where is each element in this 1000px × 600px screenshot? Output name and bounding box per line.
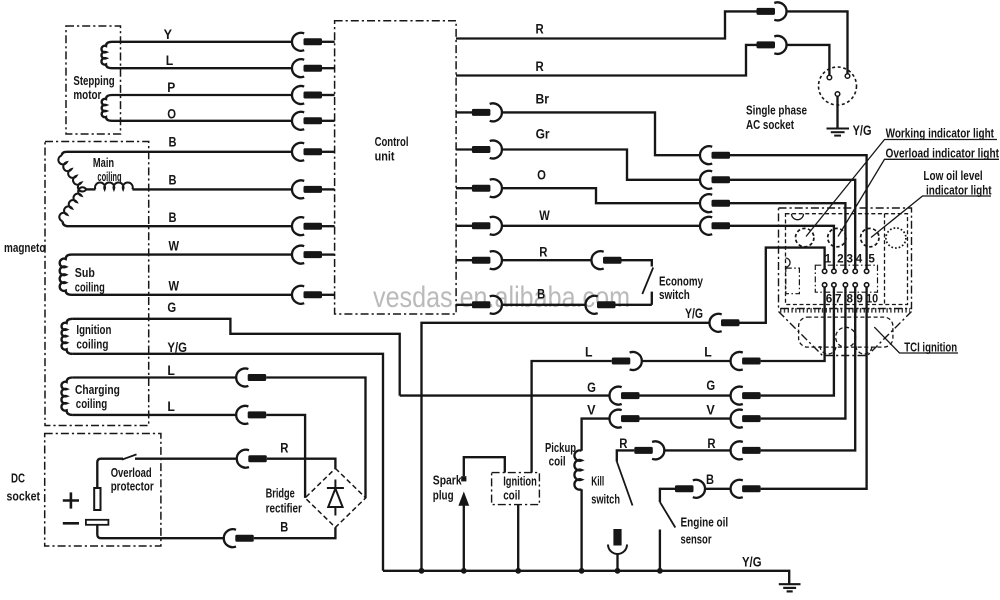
- svg-text:10: 10: [866, 292, 878, 306]
- svg-text:Kill: Kill: [591, 475, 604, 489]
- junction on ground rail x=659.9: [657, 568, 663, 574]
- TCI inner rounded rect: [799, 317, 893, 347]
- connector L left: [612, 352, 642, 370]
- connector R AC 1: [757, 2, 787, 20]
- AC socket ground stem: [836, 96, 838, 128]
- svg-text:Spark: Spark: [433, 474, 462, 488]
- spark plug lower lead: [463, 506, 465, 571]
- junction on ground rail x=617.5: [615, 568, 621, 574]
- svg-text:Bridge: Bridge: [266, 487, 295, 501]
- svg-text:O: O: [537, 168, 546, 183]
- svg-text:L: L: [585, 345, 593, 360]
- svg-text:Ignition: Ignition: [503, 475, 537, 489]
- svg-text:R: R: [707, 436, 715, 451]
- svg-text:magneto: magneto: [4, 241, 46, 255]
- svg-text:coil: coil: [549, 455, 566, 469]
- stub Gr out of control unit: [456, 148, 473, 150]
- wire V row to pickup coil: [582, 419, 610, 448]
- wire R DC to bridge top: [267, 459, 336, 469]
- svg-text:6: 6: [826, 292, 833, 306]
- svg-text:rectifier: rectifier: [266, 502, 302, 516]
- wire L charging bottom to bridge left vertex: [72, 415, 305, 498]
- indicator panel outer box: [779, 208, 912, 309]
- wire L charging top to bridge right vertex: [72, 378, 365, 498]
- svg-text:protector: protector: [111, 480, 154, 494]
- svg-text:Y/G: Y/G: [853, 123, 872, 138]
- pickup coil: [574, 448, 581, 571]
- leader working indicator: [806, 140, 997, 237]
- main coiling horizontal coil: [95, 183, 133, 190]
- ignition coiling coil: [62, 319, 73, 354]
- TCI inner circle: [836, 327, 856, 347]
- junction on ground rail x=581.6: [579, 568, 585, 574]
- wire R economy: [502, 259, 592, 261]
- TCI inner right arc: [856, 346, 872, 354]
- svg-text:indicator light: indicator light: [926, 183, 992, 197]
- AC socket ground pin: [835, 92, 840, 97]
- wire R to AC socket pin left: [456, 45, 757, 76]
- connector Gr mid: [700, 171, 730, 189]
- svg-text:Y/G: Y/G: [685, 306, 703, 321]
- wire B2 from main coiling tap: [132, 188, 292, 190]
- hatch strip under panel: [780, 308, 910, 313]
- engine oil sensor stem: [659, 530, 661, 571]
- svg-text:L: L: [704, 345, 712, 360]
- ground symbol right: [779, 584, 801, 591]
- svg-text:Charging: Charging: [75, 383, 120, 397]
- kill switch blade: [617, 462, 633, 506]
- kill switch cap cup: [608, 545, 627, 555]
- economy switch bottom contact: [651, 292, 653, 305]
- svg-text:B: B: [169, 172, 177, 187]
- wire B DC to bridge bottom: [254, 527, 336, 538]
- wire R to AC socket pin right: [456, 11, 757, 38]
- connector L right: [731, 352, 761, 370]
- stub O row into control unit: [322, 120, 335, 122]
- wire B1 from main coiling: [62, 152, 292, 156]
- wire B3 from main coiling: [63, 221, 292, 226]
- svg-text:4: 4: [856, 252, 863, 266]
- wire R AC 2 continuation: [787, 45, 830, 75]
- terminal pins 1-10: [822, 269, 868, 287]
- svg-text:Gr: Gr: [536, 127, 551, 142]
- svg-text:G: G: [587, 380, 596, 395]
- svg-text:B: B: [280, 520, 288, 535]
- bridge rectifier diamond: [305, 468, 366, 527]
- svg-text:G: G: [706, 378, 715, 393]
- stub W out of control unit: [456, 225, 473, 227]
- svg-text:3: 3: [846, 252, 853, 266]
- indicator panel left notch: [786, 258, 791, 267]
- sub coiling with W wires: [60, 255, 292, 295]
- connector Y/G: [709, 314, 739, 332]
- engine oil sensor blade: [660, 502, 675, 528]
- control unit box: [335, 21, 457, 314]
- svg-text:coiling: coiling: [76, 338, 108, 352]
- svg-text:TCI ignition: TCI ignition: [904, 341, 957, 355]
- svg-text:Economy: Economy: [659, 275, 703, 289]
- connector B right: [731, 480, 761, 498]
- wire from pin 7 to G row: [761, 287, 834, 396]
- AC socket pin left: [827, 75, 832, 80]
- connector G left: [609, 387, 639, 405]
- wire R AC 1 continuation: [787, 11, 848, 73]
- wire G row middle: [640, 394, 731, 396]
- connector W mid: [700, 217, 730, 235]
- stub Br out of control unit: [456, 111, 473, 113]
- connector R economy row: [472, 251, 502, 269]
- svg-text:coiling: coiling: [97, 170, 121, 184]
- kill switch stem to ground rail: [616, 554, 618, 571]
- working indicator light circle: [796, 228, 814, 246]
- svg-text:W: W: [539, 208, 550, 223]
- stepping motor box: [66, 26, 121, 134]
- svg-text:coiling: coiling: [75, 281, 105, 295]
- connector B economy row: [472, 296, 502, 314]
- svg-text:G: G: [167, 300, 176, 315]
- wire B row to oil sensor: [660, 489, 675, 502]
- wire Gr step down: [502, 150, 700, 180]
- ground rail: [383, 571, 789, 584]
- stub R economy out of control unit: [456, 259, 473, 261]
- svg-text:unit: unit: [375, 150, 396, 164]
- svg-text:B: B: [537, 286, 545, 301]
- svg-text:Sub: Sub: [75, 266, 95, 280]
- svg-text:Overload: Overload: [111, 466, 152, 480]
- overload protector switch blade: [122, 454, 137, 459]
- svg-text:motor: motor: [73, 88, 101, 102]
- svg-text:Br: Br: [536, 92, 550, 107]
- stepping motor coil 1 with Y and L wires: [101, 42, 292, 68]
- connector V right: [731, 410, 761, 428]
- wire B economy to switch: [616, 304, 652, 306]
- svg-text:Ignition: Ignition: [76, 323, 111, 337]
- leader TCI ignition: [874, 327, 958, 353]
- wire Br to pin 5: [730, 155, 867, 269]
- junction on ground rail x=518.2: [515, 568, 521, 574]
- wire R economy to switch: [622, 260, 652, 266]
- stub W2 row into control unit: [322, 294, 335, 296]
- svg-text:Low oil level: Low oil level: [923, 169, 982, 183]
- wire W straight: [502, 225, 700, 227]
- svg-text:R: R: [280, 441, 288, 456]
- spark plug arrowhead: [458, 492, 469, 506]
- connector R economy second: [591, 251, 621, 269]
- svg-text:W: W: [169, 278, 180, 293]
- connector R AC 2: [757, 36, 787, 54]
- svg-text:L: L: [166, 53, 174, 68]
- svg-text:V: V: [706, 402, 714, 417]
- svg-text:Pickup: Pickup: [545, 441, 576, 455]
- svg-text:Overload indicator light: Overload indicator light: [886, 146, 1000, 160]
- ignition coil bottom lead: [517, 505, 519, 571]
- stub B3 row into control unit: [322, 225, 335, 227]
- connector O mid: [700, 194, 730, 212]
- connector W2 row: [292, 286, 322, 304]
- wire R row to kill switch: [617, 450, 635, 461]
- DC socket box: [45, 434, 161, 547]
- wire from pin 10 to B row: [761, 287, 867, 489]
- svg-text:B: B: [169, 135, 177, 150]
- svg-text:R: R: [539, 245, 547, 260]
- connector B3 row: [292, 217, 322, 235]
- svg-text:2: 2: [837, 252, 844, 266]
- wire from pin 6 to L row: [761, 287, 825, 361]
- wire O to pin 3: [730, 203, 845, 269]
- plus symbol: [63, 492, 79, 508]
- wire B economy: [502, 304, 586, 306]
- economy switch blade: [642, 268, 653, 295]
- connector L charging bottom: [236, 406, 266, 424]
- magneto box: [45, 142, 149, 426]
- stub P row into control unit: [322, 94, 335, 96]
- connector B economy second: [585, 296, 615, 314]
- bridge diode: [327, 480, 344, 516]
- svg-text:sensor: sensor: [681, 533, 712, 547]
- indicator panel small rect: [786, 268, 800, 294]
- svg-text:Control: Control: [375, 135, 409, 149]
- svg-text:O: O: [167, 107, 176, 122]
- wire Y/G continuation to pin 1: [740, 248, 825, 323]
- svg-text:coiling: coiling: [76, 397, 107, 411]
- connector V left: [609, 410, 639, 428]
- connector R right: [731, 441, 761, 459]
- connector O row: [472, 179, 502, 197]
- stepping motor coil 2 with P and O wires: [102, 95, 292, 121]
- wire from pin 8 to V row: [761, 287, 846, 419]
- svg-text:switch: switch: [591, 493, 620, 507]
- svg-text:5: 5: [868, 252, 875, 266]
- svg-text:B: B: [706, 472, 714, 487]
- wire from pin 9 to R row: [761, 287, 856, 450]
- spark plug electrode square: [461, 476, 466, 481]
- kill switch cap bar: [613, 529, 621, 546]
- svg-text:coil: coil: [503, 488, 520, 502]
- connector Y row: [292, 33, 322, 51]
- svg-text:Engine oil: Engine oil: [681, 516, 729, 530]
- wire R row middle: [664, 449, 730, 451]
- connector Gr row: [472, 141, 502, 159]
- indicator panel inner divider: [884, 214, 886, 305]
- overload protector fuse: [94, 488, 100, 510]
- connector W row: [472, 217, 502, 235]
- connector O row: [292, 112, 322, 130]
- svg-text:W: W: [169, 238, 180, 253]
- wire Y/G from ignition coiling to ground rail: [72, 354, 383, 571]
- ignition coil box: [492, 473, 540, 505]
- stub B2 row into control unit: [322, 188, 335, 190]
- connector W1 row: [292, 246, 322, 264]
- junction on ground rail x=421.5: [419, 568, 425, 574]
- connector Br row: [472, 103, 502, 121]
- charging coiling coil: [61, 378, 72, 415]
- svg-text:1: 1: [825, 252, 832, 266]
- svg-text:P: P: [167, 80, 175, 95]
- svg-text:DC: DC: [11, 472, 25, 486]
- overload indicator light circle: [828, 228, 846, 246]
- connector L charging top: [236, 369, 266, 387]
- wire B DC from minus bar: [97, 525, 224, 538]
- TCI ignition trapezoid: [779, 312, 912, 356]
- main coiling lower loops: [59, 187, 86, 221]
- svg-text:7: 7: [835, 292, 842, 306]
- wire Br step down: [502, 112, 700, 155]
- svg-text:Main: Main: [93, 156, 114, 170]
- AC socket pin right: [845, 74, 850, 79]
- minus symbol: [63, 522, 79, 525]
- wire V row middle: [640, 417, 731, 419]
- svg-text:AC socket: AC socket: [746, 118, 795, 132]
- svg-text:R: R: [619, 436, 627, 451]
- spare indicator circle: [886, 228, 906, 248]
- wire W to pin 2: [730, 226, 834, 269]
- main coiling junction link: [86, 188, 95, 190]
- stub B economy out of control unit: [456, 304, 473, 306]
- wire B row middle: [705, 488, 731, 490]
- wire O step down: [502, 188, 700, 203]
- svg-text:R: R: [536, 22, 544, 37]
- stub Y row into control unit: [322, 41, 335, 43]
- stub O out of control unit: [456, 187, 473, 189]
- leader overload indicator: [838, 159, 999, 236]
- svg-text:8: 8: [846, 292, 853, 306]
- connector R left: [634, 441, 664, 459]
- wire Y/G from ground rail to pin 1: [422, 323, 710, 571]
- connector P row: [292, 86, 322, 104]
- wire G row to G coil wire: [400, 394, 610, 396]
- single phase AC socket circle: [819, 67, 857, 105]
- wire R DC from fuse: [97, 459, 123, 488]
- wire G from ignition coiling: [72, 319, 399, 396]
- low oil level indicator light circle: [861, 228, 879, 246]
- connector B1 row: [292, 143, 322, 161]
- connector B DC: [224, 529, 254, 547]
- terminal block box: [815, 265, 877, 292]
- svg-text:R: R: [536, 59, 544, 74]
- connector Br mid: [700, 146, 730, 164]
- indicator panel inner box: [786, 214, 908, 305]
- svg-text:Stepping: Stepping: [73, 74, 114, 88]
- connector B2 row: [292, 180, 322, 198]
- indicator panel top notch: [792, 214, 804, 220]
- svg-text:Y/G: Y/G: [742, 555, 762, 570]
- TCI inner left arc: [820, 346, 836, 354]
- wire R DC to connector: [135, 458, 237, 460]
- svg-text:switch: switch: [659, 288, 690, 302]
- AC socket ground symbol: [827, 129, 850, 136]
- svg-text:L: L: [167, 363, 175, 378]
- svg-text:socket: socket: [7, 490, 41, 504]
- svg-text:Y: Y: [164, 27, 172, 42]
- svg-text:Single phase: Single phase: [746, 104, 807, 118]
- svg-text:Working indicator light: Working indicator light: [886, 127, 995, 141]
- svg-text:B: B: [169, 210, 177, 225]
- svg-text:V: V: [587, 403, 595, 418]
- connector B left: [675, 480, 705, 498]
- leader low oil indicator: [871, 196, 991, 238]
- svg-text:plug: plug: [433, 488, 454, 502]
- stub W1 row into control unit: [322, 253, 335, 255]
- junction on ground rail x=463.8: [461, 568, 467, 574]
- stub B1 row into control unit: [322, 151, 335, 153]
- DC minus terminal bar: [86, 520, 109, 525]
- wire L row middle: [642, 360, 731, 362]
- connector L row: [292, 59, 322, 77]
- connector R DC: [237, 450, 267, 468]
- spark plug top lead to ignition coil: [464, 457, 505, 476]
- svg-text:L: L: [167, 399, 175, 414]
- wire L row to ignition coil: [532, 361, 612, 473]
- connector G right: [731, 387, 761, 405]
- stub L row into control unit: [322, 67, 335, 69]
- wire Gr to pin 4: [730, 180, 855, 269]
- svg-text:Y/G: Y/G: [167, 340, 187, 355]
- svg-text:9: 9: [856, 292, 863, 306]
- main coiling upper loops: [58, 156, 86, 192]
